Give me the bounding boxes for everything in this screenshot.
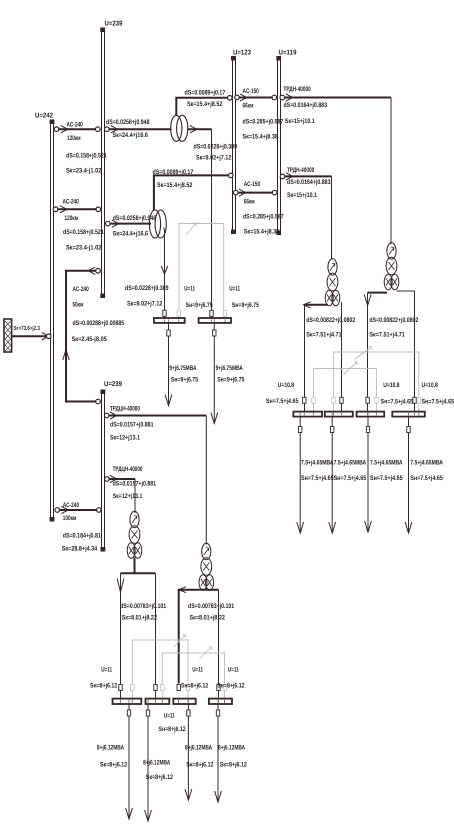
svg-text:dS=0.00822+j0.0802: dS=0.00822+j0.0802	[306, 317, 355, 324]
transformer U3 (three windings, right-upper right)	[384, 243, 399, 290]
branch TRDCN-40000 #2 from U=239 lower	[105, 466, 157, 513]
svg-text:U=10.8: U=10.8	[422, 382, 439, 389]
svg-text:Sк=8+j6.12: Sк=8+j6.12	[186, 761, 213, 768]
svg-text:Sк=23.4-j1.02: Sк=23.4-j1.02	[66, 244, 102, 251]
branch U=239 to transformer T1	[105, 119, 172, 139]
svg-text:dS=0.00783+j0.101: dS=0.00783+j0.101	[188, 603, 234, 610]
wire generator to bus U=242	[12, 333, 51, 340]
svg-text:dS=0.0258+j0.948: dS=0.0258+j0.948	[106, 119, 150, 126]
svg-text:ТРДЦН-40000: ТРДЦН-40000	[110, 405, 140, 412]
svg-text:Sк=8.01+j8.22: Sк=8.01+j8.22	[190, 615, 226, 622]
svg-text:7.5+j4.65МВА: 7.5+j4.65МВА	[410, 460, 443, 467]
svg-text:Sк=15+j10.1: Sк=15+j10.1	[285, 118, 315, 125]
svg-text:Sк=15+j10.1: Sк=15+j10.1	[287, 192, 317, 199]
wire U2 output to bar R2	[341, 302, 343, 412]
svg-text:9+j6.75МВА: 9+j6.75МВА	[216, 365, 243, 372]
branch TRDCN-40000 #1 from U=239 lower	[104, 405, 206, 544]
wire T1 output to U=11 bar2	[187, 126, 237, 319]
wire U3 output to bar R3	[364, 293, 418, 412]
svg-text:dS=0.0164+j0.883: dS=0.0164+j0.883	[287, 179, 331, 186]
svg-text:dS=0.00822+j0.0802: dS=0.00822+j0.0802	[369, 317, 418, 324]
svg-text:U=11: U=11	[229, 286, 240, 293]
svg-text:50км: 50км	[73, 302, 84, 309]
branch TRDN-40000 #1 from U=119	[280, 86, 391, 244]
bus U=119	[276, 50, 296, 236]
svg-text:Sк=8+j6.12: Sк=8+j6.12	[220, 761, 247, 768]
open tie switch (gray) G1	[179, 223, 224, 319]
transformer U5 (three windings, lower right)	[199, 543, 214, 590]
bar connection ticks	[121, 319, 419, 703]
svg-text:66км: 66км	[244, 198, 255, 205]
svg-text:Sн=8+j6.12: Sн=8+j6.12	[159, 726, 186, 733]
svg-text:АС-150: АС-150	[243, 88, 260, 95]
svg-text:dS=0.158+j0.521: dS=0.158+j0.521	[63, 229, 104, 236]
svg-text:Sк=28.8+j4.34: Sк=28.8+j4.34	[62, 546, 98, 553]
wire U4 output to bar A	[117, 558, 166, 700]
load arrow bar A	[97, 705, 132, 820]
branch U=239 to transformer T2	[106, 215, 157, 238]
svg-text:Sк=8+j6.12: Sк=8+j6.12	[146, 774, 173, 781]
branch TRDN-40000 #2 from U=119	[280, 167, 331, 260]
load arrow bar R3	[365, 417, 403, 532]
svg-text:Sк=24.4+j16.6: Sк=24.4+j16.6	[113, 132, 149, 139]
svg-text:U=11: U=11	[192, 667, 203, 674]
node U=10.8 bar R2	[325, 397, 353, 432]
svg-text:АС-240: АС-240	[73, 286, 90, 293]
wire U4 output to bar B	[155, 573, 157, 699]
svg-text:Sн=7.5+j4.65: Sн=7.5+j4.65	[370, 475, 403, 482]
line AC-240 120km #2	[53, 198, 104, 251]
bus U=242	[35, 113, 54, 522]
svg-text:Sн=9+j6.75: Sн=9+j6.75	[232, 302, 259, 309]
svg-text:9+j6.75МВА: 9+j6.75МВА	[169, 365, 196, 372]
node U=11 bar C	[173, 667, 208, 717]
svg-text:dS=0.0228+j0.389: dS=0.0228+j0.389	[194, 144, 238, 151]
open tie switch (gray) G2	[334, 346, 419, 412]
svg-text:120км: 120км	[65, 215, 79, 222]
node U=10.8 bar R4	[392, 382, 454, 433]
svg-text:Sг=73.6+j2.3: Sг=73.6+j2.3	[14, 325, 41, 332]
svg-text:Sн=7.5+j4.65: Sн=7.5+j4.65	[381, 398, 414, 405]
svg-text:dS=0.00783+j0.101: dS=0.00783+j0.101	[120, 603, 166, 610]
svg-text:АС-150: АС-150	[244, 181, 261, 188]
svg-text:dS=0.00288+j0.00885: dS=0.00288+j0.00885	[73, 320, 125, 327]
svg-text:dS=0.0089+j0.17: dS=0.0089+j0.17	[185, 89, 226, 96]
load arrow bar B	[143, 705, 173, 822]
svg-text:Sн=9+j6.75: Sн=9+j6.75	[186, 302, 213, 309]
wire U3 output to bar R4	[397, 291, 415, 412]
svg-text:Sк=9.02+j7.12: Sк=9.02+j7.12	[196, 155, 232, 162]
svg-text:Sн=7.5+j4.65: Sн=7.5+j4.65	[334, 475, 367, 482]
svg-text:8+j6.12МВА: 8+j6.12МВА	[97, 745, 124, 752]
load arrow bar D	[215, 705, 248, 803]
svg-text:U=10.8: U=10.8	[278, 382, 295, 389]
svg-text:Sн=7.5+j4.65: Sн=7.5+j4.65	[266, 398, 299, 405]
svg-text:Sк=9.02+j7.12: Sк=9.02+j7.12	[127, 301, 163, 308]
svg-text:ТРДЦН-40000: ТРДЦН-40000	[113, 466, 143, 473]
node U=10.8 bar R3	[357, 382, 414, 433]
transformer U2 (three windings, right-upper left)	[325, 259, 340, 306]
svg-text:U=239: U=239	[104, 381, 122, 388]
load arrow bar R2	[329, 417, 367, 533]
node U=11 bar1	[154, 286, 213, 337]
svg-text:7.5+j4.65МВА: 7.5+j4.65МВА	[334, 460, 367, 467]
svg-text:U=242: U=242	[35, 113, 53, 120]
svg-text:66км: 66км	[243, 103, 254, 110]
svg-text:U=10.8: U=10.8	[383, 382, 400, 389]
svg-text:Sк=12+j13.1: Sк=12+j13.1	[113, 493, 143, 500]
svg-text:Sк=8+j6.12: Sк=8+j6.12	[100, 761, 127, 768]
svg-text:Sк=7.51+j4.71: Sк=7.51+j4.71	[306, 331, 342, 338]
line AC-150 66km #2	[234, 181, 284, 235]
svg-text:120км: 120км	[67, 135, 81, 142]
svg-text:Sк=7.51+j4.71: Sк=7.51+j4.71	[369, 331, 405, 338]
line AC-240 120km #1	[54, 121, 107, 174]
load arrow U=11 bar2	[211, 324, 245, 424]
bus U=123	[231, 50, 251, 235]
wire U5 output to bar D	[218, 590, 220, 699]
svg-text:Sк=23.4-j1.02: Sк=23.4-j1.02	[66, 168, 102, 175]
svg-text:Sн=8+j6.12: Sн=8+j6.12	[90, 683, 117, 690]
load arrow U=11 bar1	[165, 324, 198, 406]
svg-text:Sк=15.4+j8.52: Sк=15.4+j8.52	[157, 182, 193, 189]
svg-text:8+j6.12МВА: 8+j6.12МВА	[185, 745, 212, 752]
node U=11 bar A	[90, 667, 141, 717]
load arrow bar R1	[297, 417, 334, 533]
svg-text:Sн=8+j6.12: Sн=8+j6.12	[181, 683, 208, 690]
svg-text:Sн=7.5+j4.65: Sн=7.5+j4.65	[301, 475, 334, 482]
bus U=239 lower	[101, 381, 123, 552]
svg-text:8+j6.12МВА: 8+j6.12МВА	[143, 759, 170, 766]
open tie switch (gray) G3	[314, 361, 377, 412]
svg-text:dS=0.0157+j0.881: dS=0.0157+j0.881	[113, 481, 157, 488]
svg-text:8+j6.12МВА: 8+j6.12МВА	[218, 745, 245, 752]
svg-text:Sн=9+j6.75: Sн=9+j6.75	[171, 377, 198, 384]
line AC-150 66km #1	[235, 88, 284, 141]
wire T2 output to U=11 bar1	[125, 228, 169, 319]
open tie switch (gray) G5	[162, 646, 224, 699]
svg-text:dS=0.158+j0.521: dS=0.158+j0.521	[66, 153, 107, 160]
svg-text:Sк=15.4+j8.38: Sк=15.4+j8.38	[243, 134, 279, 141]
svg-text:U=11: U=11	[228, 667, 239, 674]
node U=11 bar B	[146, 685, 186, 734]
svg-text:ТРДН-40000: ТРДН-40000	[287, 167, 314, 174]
wire T2 to bus U=123	[153, 169, 234, 211]
transformer T1 (two windings)	[171, 115, 188, 141]
load arrow bar R4	[405, 417, 443, 533]
svg-text:U=11: U=11	[101, 667, 112, 674]
svg-text:АС-240: АС-240	[63, 502, 80, 509]
svg-text:7.5+j4.65МВА: 7.5+j4.65МВА	[301, 460, 334, 467]
bus U=239 top	[100, 21, 122, 299]
transformer U4 (three windings, lower left)	[127, 511, 142, 558]
svg-text:dS=0.285+j0.587: dS=0.285+j0.587	[243, 119, 284, 126]
line AC-240 100km	[55, 502, 101, 553]
svg-text:Sн=9+j6.75: Sн=9+j6.75	[217, 377, 244, 384]
svg-text:U=119: U=119	[279, 50, 297, 57]
svg-text:Sк=24.4+j16.6: Sк=24.4+j16.6	[113, 231, 149, 238]
svg-text:U=11: U=11	[184, 286, 195, 293]
node U=11 bar D	[209, 667, 245, 717]
svg-text:dS=0.0089+j0.17: dS=0.0089+j0.17	[153, 169, 194, 176]
svg-text:U=11: U=11	[164, 713, 175, 720]
open tie switch (gray) G4	[132, 634, 188, 699]
svg-text:Sн=7.5+j4.65: Sн=7.5+j4.65	[410, 475, 443, 482]
wire T1 to bus U=123	[176, 89, 232, 116]
svg-text:dS=0.0157+j0.881: dS=0.0157+j0.881	[110, 422, 154, 429]
svg-text:Sн=7.5+j4.65: Sн=7.5+j4.65	[422, 398, 454, 405]
svg-text:Sн=8+j6.12: Sн=8+j6.12	[217, 683, 244, 690]
svg-text:U=123: U=123	[233, 50, 251, 57]
line AC-240 50km	[63, 267, 125, 404]
svg-text:7.5+j4.65МВА: 7.5+j4.65МВА	[370, 460, 403, 467]
svg-text:ТРДН-40000: ТРДН-40000	[284, 86, 311, 93]
svg-text:dS=0.0228+j0.389: dS=0.0228+j0.389	[125, 285, 169, 292]
load arrow bar C	[185, 705, 214, 801]
svg-text:Sк=2.45-j8.05: Sк=2.45-j8.05	[72, 336, 108, 343]
svg-text:dS=0.0164+j0.883: dS=0.0164+j0.883	[284, 102, 328, 109]
svg-text:АС-240: АС-240	[63, 198, 80, 205]
node U=10.8 bar R1	[266, 382, 322, 433]
generator G1	[4, 319, 40, 352]
wire U5 output to bar C	[179, 587, 235, 684]
node U=11 bar2	[199, 286, 260, 337]
svg-text:U=239: U=239	[105, 21, 123, 28]
svg-text:dS=0.184+j0.81: dS=0.184+j0.81	[63, 533, 101, 540]
wire U2 output to bar R1	[304, 302, 356, 412]
svg-text:dS=0.285+j0.587: dS=0.285+j0.587	[243, 213, 284, 220]
svg-text:Sк=15.4+j8.38: Sк=15.4+j8.38	[244, 228, 280, 235]
svg-text:100км: 100км	[63, 515, 77, 522]
svg-text:Sк=8.01+j8.22: Sк=8.01+j8.22	[122, 615, 158, 622]
svg-text:Sк=15.4+j8.52: Sк=15.4+j8.52	[187, 101, 223, 108]
svg-text:Sк=12+j13.1: Sк=12+j13.1	[110, 435, 140, 442]
transformer T2 (two windings)	[149, 210, 166, 238]
svg-text:АС-240: АС-240	[67, 121, 84, 128]
